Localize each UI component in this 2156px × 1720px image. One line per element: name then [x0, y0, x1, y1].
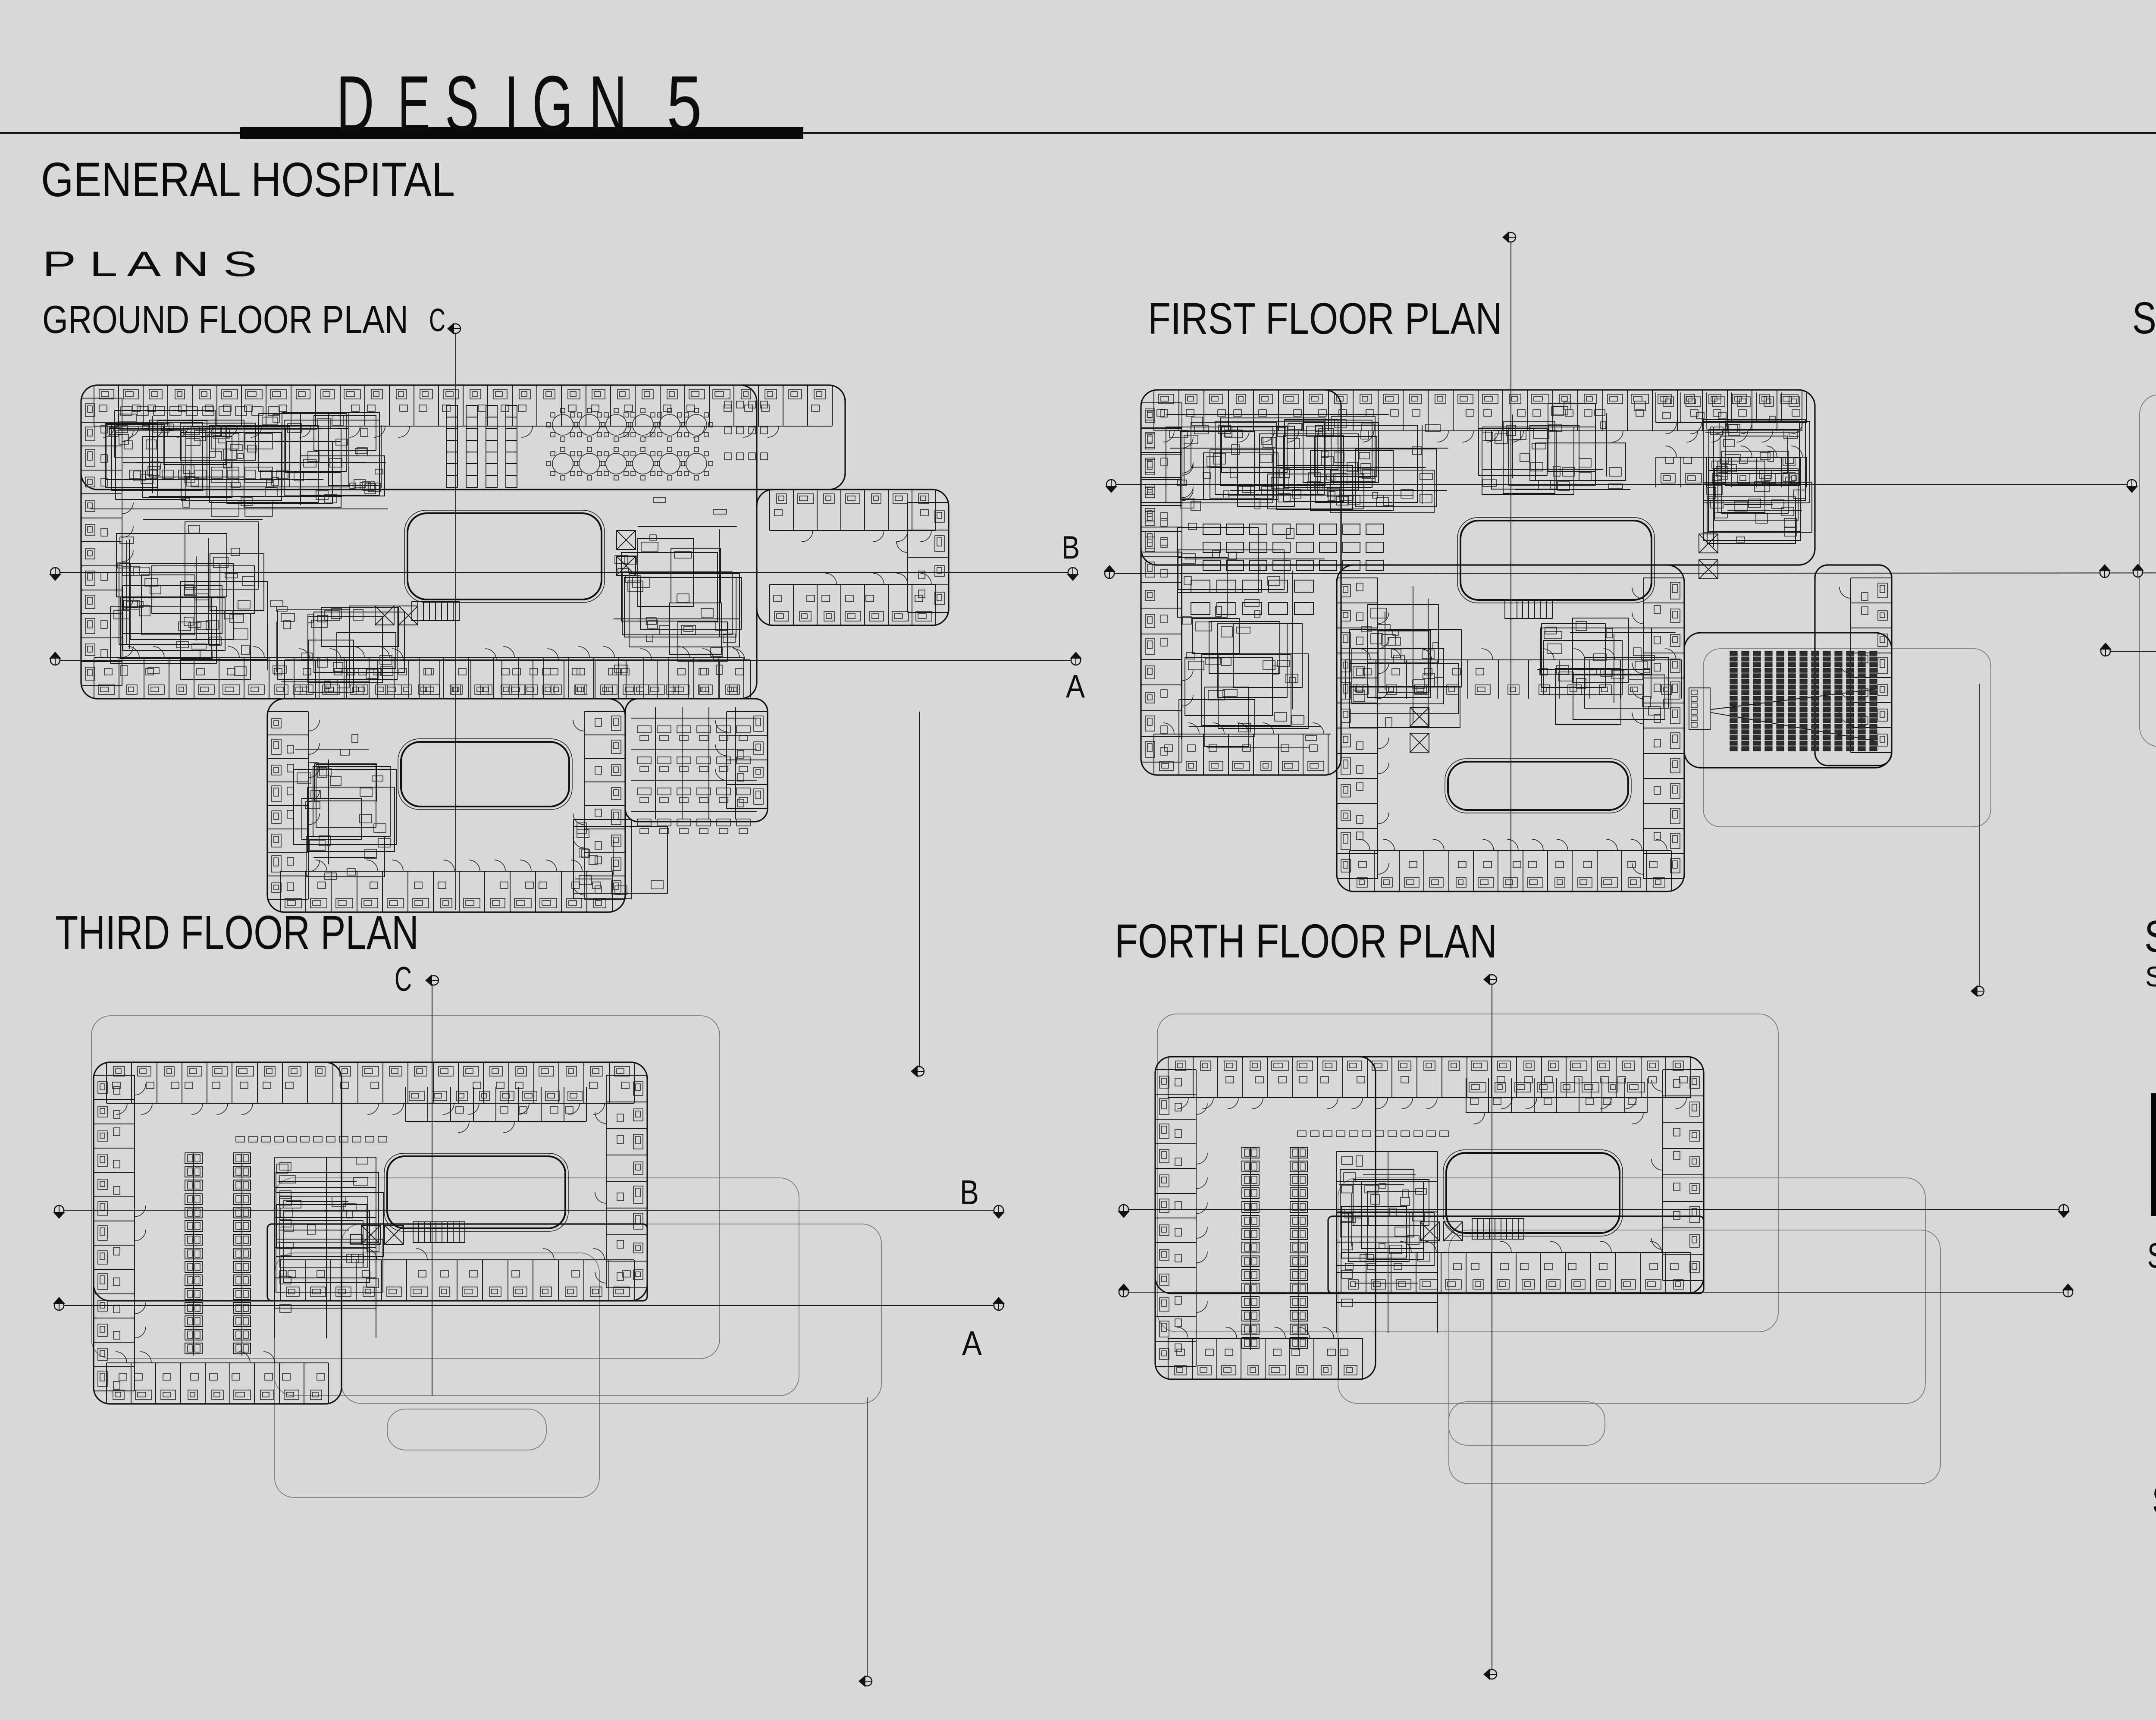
- cut line C first floor: [1510, 239, 1511, 888]
- ground floor plan furniture: [85, 389, 944, 908]
- cut line A ground floor: [55, 660, 1076, 661]
- forth floor plan furniture: [1159, 1061, 1699, 1375]
- svg-text:S E C T I O N S: S E C T I O N S: [2144, 912, 2156, 962]
- svg-text:A: A: [1066, 668, 1085, 704]
- alignment line third lower: [867, 1397, 868, 1680]
- svg-text:SECOND FLOOR PLAN: SECOND FLOOR PLAN: [2132, 293, 2156, 343]
- title rule line: [0, 132, 2156, 134]
- svg-text:FIRST FLOOR PLAN: FIRST FLOOR PLAN: [1148, 294, 1502, 343]
- svg-text:FORTH FLOOR PLAN: FORTH FLOOR PLAN: [1115, 915, 1497, 968]
- cut line B first floor: [1111, 484, 2132, 485]
- svg-text:B: B: [960, 1173, 979, 1212]
- ghost outline forth-2: [1338, 1178, 1925, 1403]
- first floor auditorium seats: [1730, 651, 1877, 751]
- ghost outline third-3: [342, 1224, 881, 1403]
- svg-text:G: G: [532, 60, 573, 148]
- third atrium: [387, 1156, 565, 1228]
- svg-text:S: S: [445, 59, 479, 148]
- ghost outline forth-3: [1449, 1230, 1940, 1484]
- ghost outline forth-1: [1157, 1014, 1778, 1332]
- svg-text:E: E: [398, 60, 430, 148]
- ghost outline third-2: [274, 1178, 799, 1396]
- ghost outline forth small: [1449, 1402, 1605, 1445]
- first floor plan partitions: [1141, 390, 1892, 891]
- svg-text:A: A: [962, 1324, 982, 1362]
- svg-text:N: N: [589, 60, 627, 148]
- svg-text:SEC B-B: SEC B-B: [2147, 1236, 2156, 1275]
- ghost outline third-1: [91, 1016, 720, 1359]
- alignment line first-forth right: [1979, 684, 1980, 989]
- forth atrium: [1446, 1153, 1620, 1233]
- ghost outline third small: [387, 1409, 546, 1450]
- ground floor plan partitions: [81, 385, 949, 912]
- first atrium: [1460, 521, 1651, 600]
- svg-text:GROUND FLOOR PLAN: GROUND FLOOR PLAN: [42, 298, 408, 342]
- svg-text:C: C: [395, 960, 412, 998]
- ground floor plan outline: [81, 385, 949, 912]
- svg-text:5: 5: [667, 60, 702, 148]
- svg-text:D: D: [336, 60, 374, 148]
- svg-text:THIRD FLOOR PLAN: THIRD FLOOR PLAN: [55, 906, 419, 959]
- cut line B ground floor: [55, 572, 1073, 573]
- svg-text:SEC C-C: SEC C-C: [2153, 1478, 2156, 1521]
- svg-text:I: I: [505, 59, 519, 148]
- cut line B third floor: [59, 1210, 999, 1211]
- section A-A black mass: [2151, 1093, 2156, 1216]
- ghost outline third-4: [275, 1253, 599, 1497]
- svg-text:B: B: [1062, 529, 1080, 565]
- third floor plan partitions: [94, 1062, 647, 1404]
- svg-text:P L A N S: P L A N S: [42, 245, 257, 284]
- cut line C forth floor: [1492, 981, 1492, 1673]
- first lower atrium: [1448, 762, 1628, 810]
- ghost outline first: [1703, 649, 1991, 827]
- third floor plan outline: [94, 1062, 647, 1404]
- ground atrium: [407, 513, 602, 599]
- first floor plan outline: [1141, 390, 1892, 891]
- forth floor plan outline: [1155, 1057, 1704, 1379]
- title thick bar: [240, 127, 803, 139]
- svg-text:GENERAL HOSPITAL: GENERAL HOSPITAL: [41, 153, 455, 207]
- cut line A forth floor: [1124, 1292, 2068, 1293]
- svg-text:SEC A-A: SEC A-A: [2145, 960, 2156, 992]
- ghost outline second-1: [2140, 395, 2156, 747]
- cut line A first/second floors: [1109, 572, 2156, 574]
- svg-text:C: C: [429, 302, 445, 338]
- cut line B forth floor: [1124, 1209, 2064, 1210]
- cut line A third floor: [59, 1305, 999, 1306]
- forth floor plan partitions: [1155, 1057, 1704, 1379]
- alignment line ground-third: [919, 712, 920, 1070]
- first floor plan furniture: [1145, 394, 1887, 887]
- cut line C third floor: [432, 982, 432, 1396]
- cut line A second floor: [2106, 651, 2156, 652]
- third floor plan furniture: [98, 1067, 643, 1400]
- cut line C ground floor: [455, 330, 456, 910]
- ground lower atrium: [401, 742, 569, 807]
